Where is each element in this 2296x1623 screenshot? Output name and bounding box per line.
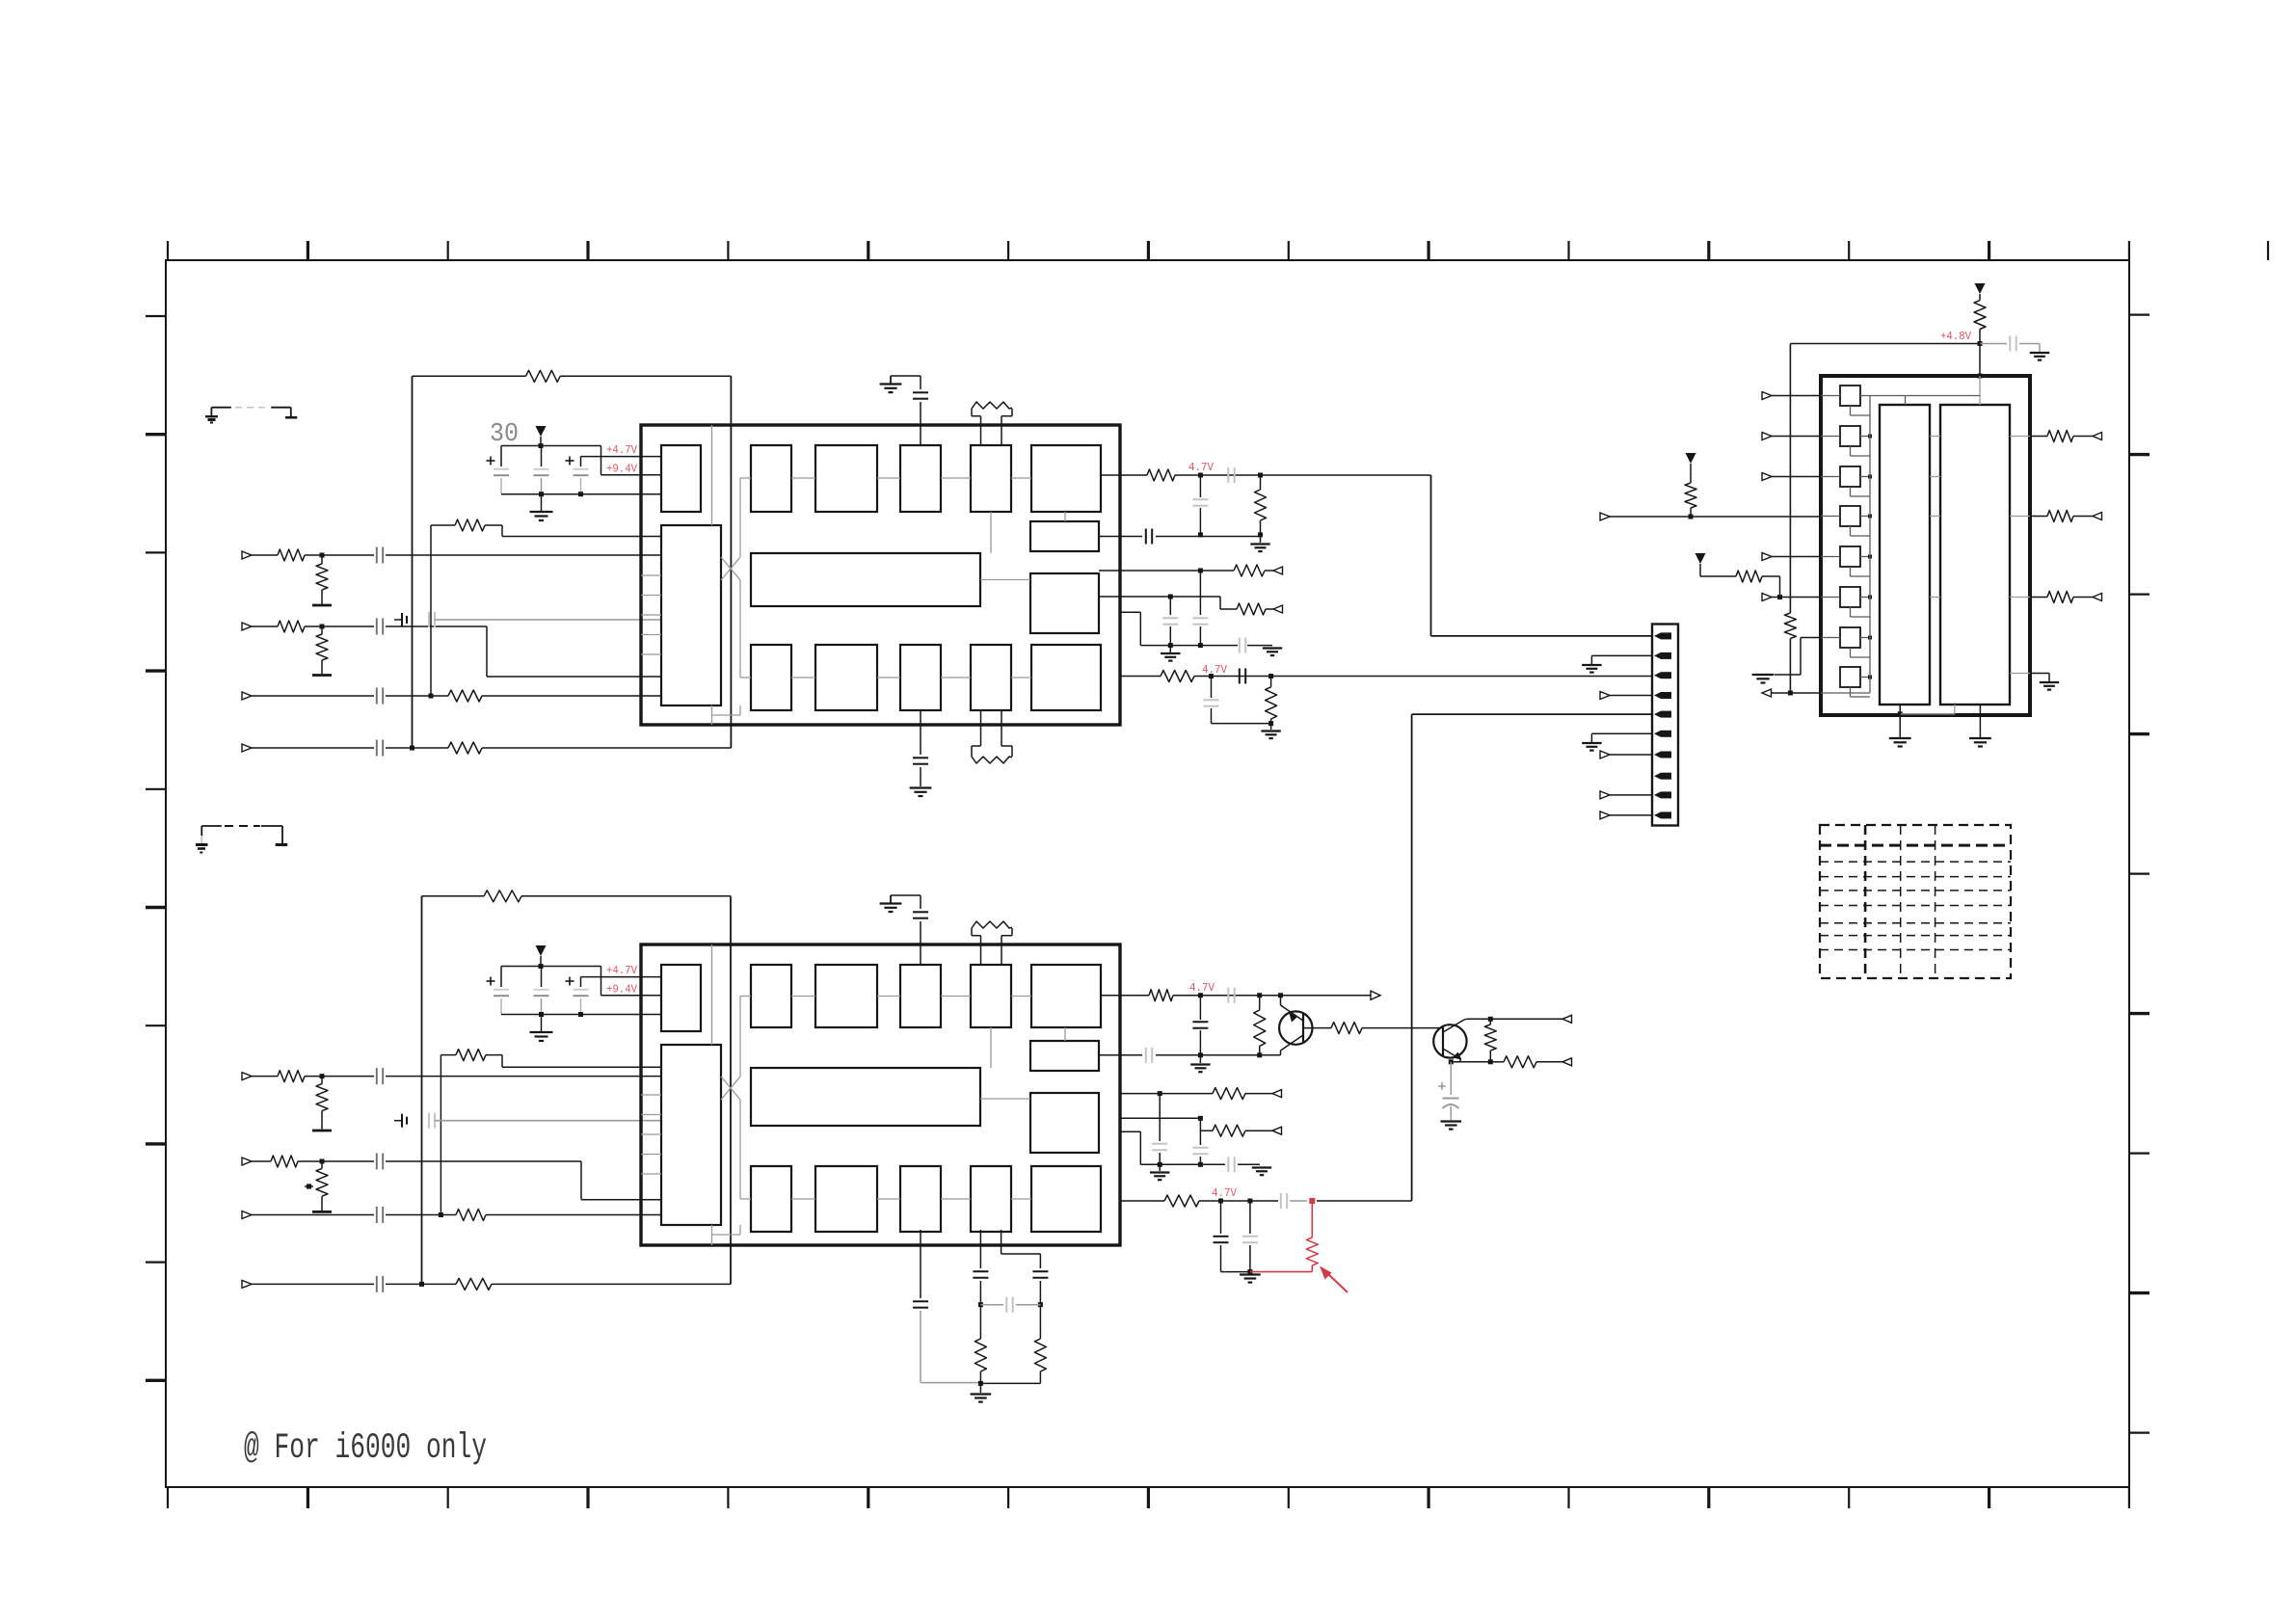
U2 bottom row block E (1031, 1166, 1101, 1232)
node OUT4 (1168, 595, 1173, 599)
node OUT6 n1 (1198, 993, 1203, 998)
capacitor C19 (IN5 coupling) (376, 1068, 378, 1084)
capacitor C11 (OUT1 series) (1227, 467, 1229, 483)
U2 input selector sub-block (661, 1045, 721, 1225)
ground bar IN6 shunt (312, 1211, 332, 1213)
resistor R32 (OUT10) (1164, 1195, 1199, 1207)
input arrow U3 row E (1762, 553, 1772, 561)
top tick marks (167, 241, 169, 260)
transistor Q1 (1279, 1011, 1312, 1044)
wire IN3 c (482, 695, 661, 697)
node AGC n2 (1198, 643, 1203, 648)
capacitor C37 (1199, 1118, 1201, 1145)
node row H (1788, 691, 1793, 696)
wire +9.4V net IC2 (601, 967, 602, 996)
wire power rail bottom (501, 493, 661, 495)
wire IN7 c (486, 1214, 661, 1216)
wire IN8 c (492, 1283, 731, 1285)
wire row-1094 to IC2 (486, 1054, 502, 1056)
wire power rail top IC2 (501, 966, 601, 968)
IC1 feedback loop right wire (730, 376, 732, 748)
resistor R18 (IN5 shunt) (321, 1077, 323, 1084)
capacitor C17 (OUT5 series) (1239, 669, 1241, 684)
node OUT10 red (1309, 1198, 1315, 1204)
wire U3 bottom right (2010, 673, 2030, 675)
capacitor C33 (OUT6 to line2) (1199, 996, 1201, 1020)
wire OUT6 a (1101, 995, 1149, 997)
output arrow OUT9 (1272, 1127, 1282, 1134)
svg-text:+9.4V: +9.4V (606, 463, 638, 476)
U2 internal center link (980, 1098, 1030, 1100)
wire shunt link (1221, 1271, 1250, 1273)
U3 input cell squares (1840, 386, 1860, 406)
node OUT10 n1 (1218, 1199, 1223, 1204)
input arrow IN6 (242, 1157, 252, 1165)
resistor R27 (Q1 base) (1331, 1023, 1362, 1034)
U2 internal row links (791, 996, 815, 998)
plus C35 (1438, 1085, 1446, 1087)
U2 top row block A (751, 965, 791, 1027)
U3 cell bus (1869, 396, 1871, 694)
U1 top row block B (815, 445, 877, 512)
node IN6 junction (320, 1159, 325, 1164)
U1 regulator sub-block (661, 445, 701, 512)
ground G10 (1441, 1120, 1462, 1122)
plus C24 (487, 980, 495, 982)
wire IN6 b (298, 1160, 374, 1162)
capacitor C4 (IN4 coupling) (376, 740, 378, 757)
resistor R1 (IC1 loop top) (526, 370, 561, 382)
capacitor C20 (IN6 coupling) (376, 1154, 378, 1170)
wire red link (1250, 1271, 1312, 1273)
output arrow U3 out 1 (2093, 433, 2102, 440)
wire IN6 a (252, 1160, 271, 1162)
wire IN2 b (305, 625, 374, 627)
resonator X1 top (980, 416, 982, 445)
input arrow U3 row B (1762, 433, 1772, 440)
capacitor C21 (IN7 coupling) (376, 1207, 378, 1223)
U2 bottom row block B (815, 1166, 877, 1232)
wire +9.4V net (601, 446, 602, 475)
input arrow IN8 (242, 1280, 252, 1288)
wire OUT3 (1099, 570, 1200, 572)
ground bar IN2 shunt (312, 674, 332, 677)
node OUT8 (1158, 1091, 1162, 1096)
wire +4.8V into IC3 (1979, 344, 1981, 377)
wire OUT9 (1120, 1117, 1200, 1119)
wire OUT10 b (1199, 1200, 1278, 1202)
node IN6 mark (307, 1184, 311, 1188)
node row F (1777, 595, 1782, 599)
wire CN1 pin7 (1600, 751, 1610, 758)
svg-text:4.7V: 4.7V (1188, 461, 1215, 474)
plus C6 (487, 460, 495, 462)
output arrow OUT3 (1273, 567, 1283, 574)
U2 regulator sub-block (661, 965, 701, 1031)
wire OUT8 (1120, 1093, 1213, 1095)
node Q2e n2 (1488, 1059, 1493, 1064)
input arrow IN5 (242, 1073, 252, 1080)
capacitor C24 electrolytic (500, 967, 502, 988)
wire OUT5 b (1194, 676, 1652, 678)
connector CN1 outline (1652, 625, 1678, 826)
node OUT6 n2 (1257, 993, 1262, 998)
output arrow U3 out 2 (2093, 513, 2102, 520)
input arrow U3 row C (1762, 473, 1772, 481)
U1 input selector sub-block (661, 525, 721, 705)
power triangle row F (1695, 553, 1706, 564)
resistor R15 (IC2 loop top) (484, 891, 521, 902)
resistor R21 (IN7 series) (456, 1210, 486, 1221)
node B2 (978, 1381, 983, 1386)
capacitor C26 electrolytic (580, 977, 582, 987)
wire +4.7V net IC2 (581, 976, 662, 978)
wire IN8 b (386, 1283, 456, 1285)
U2 bottom row block A (751, 1166, 791, 1232)
wire +4.8V left rail (1789, 344, 1791, 614)
wire IN1 a (252, 554, 278, 556)
ground G13 (1249, 1272, 1251, 1273)
output arrow Q2 emitter (1562, 1058, 1572, 1066)
U1 top row block D (971, 445, 1011, 512)
svg-text:+4.7V: +4.7V (606, 964, 638, 977)
node Q2e n1 (1449, 1059, 1454, 1064)
resistor R34 (+4.8V feed) (1979, 294, 1981, 301)
U2 top row block C (900, 965, 941, 1027)
node OUT10 n3 (1247, 1269, 1252, 1274)
resistor R38 (U3 out 1) (2047, 431, 2073, 442)
wire CN1 pin2 ground (1591, 654, 1652, 656)
capacitor C15 (1169, 597, 1171, 615)
svg-text:4.7V: 4.7V (1189, 981, 1215, 995)
U1 right small block (1030, 521, 1099, 551)
node IN1 junction (320, 553, 325, 558)
ground G14 (1582, 664, 1601, 666)
wire +4.8V rail top (1790, 343, 1980, 345)
resistor R8 (IN4 series) (448, 742, 482, 754)
resistor R9 (OUT1) (1147, 469, 1175, 481)
ground G17 (1752, 674, 1775, 676)
resistor R29 (Q2 emitter out) (1504, 1056, 1536, 1068)
U2 top row block B (815, 965, 877, 1027)
IC2 feedback loop right wire (730, 896, 732, 1285)
capacitor C9 top (891, 375, 921, 377)
node OUT5 n2 (1268, 674, 1273, 678)
U2 selector stub pins (641, 1094, 661, 1096)
U1 internal row links (791, 477, 815, 479)
U1 bottom row block E (1031, 645, 1101, 710)
input arrow U3 row D (1600, 513, 1610, 520)
output arrow Q2 collector (1562, 1015, 1572, 1023)
capacitor C38 (AGC2 series) (1227, 1157, 1229, 1172)
U1 top row block E (1031, 445, 1101, 512)
resonator X3 top IC2 (980, 936, 982, 965)
U2 right mid block (1030, 1093, 1099, 1153)
ground G15 (1582, 742, 1601, 744)
capacitor C1 (IN1 coupling) (376, 547, 378, 564)
ground G4 (1169, 646, 1171, 652)
U1 right mid block (1030, 573, 1099, 633)
ground bar IN5 shunt (312, 1130, 332, 1132)
capacitor C27 top IC2 (891, 894, 921, 896)
capacitor C13 (OUT2) (1145, 529, 1147, 545)
plus C8 (566, 460, 574, 462)
U2 right small block (1030, 1041, 1099, 1071)
resistor R33 adjust (red) (1311, 1201, 1313, 1237)
ground G9 (1199, 1055, 1201, 1063)
node row D (1689, 515, 1694, 519)
wire IN1 c (386, 554, 661, 556)
capacitor C5 stub with ground (394, 619, 402, 621)
plus C26 (566, 980, 574, 982)
resistor R28 (Q2 c-e) (1489, 1019, 1491, 1024)
resistor R20 (IN6 shunt) (321, 1161, 323, 1168)
node OUT1 n2 (1258, 473, 1263, 478)
capacitor C25 (541, 967, 543, 988)
ground G7 top IC2 (890, 895, 892, 904)
capacitor C40 (1220, 1201, 1222, 1234)
resistor R5 (IN2 series) (278, 621, 305, 632)
U3 cell stub wires (1860, 395, 1870, 397)
capacitor C35 electrolytic (Q2 emitter) (1450, 1062, 1452, 1095)
wire OUT1 a (1101, 474, 1147, 476)
IC1 feedback loop top wire (413, 375, 526, 377)
IC2 feedback loop top wire (422, 895, 485, 897)
IC1 feedback loop left wire (412, 376, 414, 748)
capacitor C2 (IN2 coupling) (376, 619, 378, 635)
wire IN8 a (252, 1283, 374, 1285)
wire IN4 a (252, 747, 374, 749)
wire Q2 emitter out (1536, 1061, 1562, 1063)
wire OUT1 b (1175, 474, 1431, 476)
input arrow IN4 (242, 744, 252, 752)
U1 top row block C (900, 445, 941, 512)
resistor R25 (OUT6) (1149, 990, 1173, 1001)
capacitor C31 (link) (980, 1304, 1003, 1306)
wire power rail top (501, 445, 601, 447)
jumper link J2 with ground (201, 825, 222, 827)
capacitor C14 (1199, 571, 1201, 615)
resistor R35 (rail series) (1784, 613, 1796, 639)
svg-text:4.7V: 4.7V (1212, 1186, 1238, 1200)
transistor Q2 (1433, 1024, 1466, 1057)
wire row-545 to IC1 (485, 524, 502, 526)
capacitor C36 (1159, 1094, 1161, 1141)
capacitor C12 (OUT1 to line2) (1199, 475, 1201, 497)
wire CN1 pin4 (1600, 692, 1610, 700)
capacitor C42 (+4.8V decouple) (1980, 343, 2007, 345)
ground G12 (1252, 1166, 1271, 1168)
wire branch 2 feed (1001, 1230, 1002, 1254)
wire AGC row (1120, 611, 1140, 613)
node IN8 junction (419, 1282, 424, 1287)
capacitor C6 electrolytic (500, 446, 502, 467)
ground bar IN1 shunt (312, 604, 332, 607)
wire Q1 base to Q2 (1362, 1027, 1443, 1029)
wire OUT2 (1099, 536, 1142, 538)
wire Q1 base (1303, 1027, 1331, 1029)
ground G6 (1270, 724, 1272, 730)
wire IN1 b (305, 554, 374, 556)
wire IN5 b (305, 1076, 374, 1078)
option table (dashed grid) (1820, 825, 2011, 978)
wire CN1 pin6 ground (1591, 732, 1652, 734)
U1 center DSP block (751, 553, 980, 606)
node OUT3 (1198, 569, 1203, 573)
wire row-545 corner (431, 524, 455, 526)
resonator X2 bottom (980, 710, 982, 746)
IC3 outline U3 (1821, 376, 2030, 715)
svg-text:+9.4V: +9.4V (606, 983, 638, 997)
node B1 (978, 1302, 983, 1307)
U3 internal top link (1979, 376, 1981, 405)
wire OUT10 a (1120, 1200, 1164, 1202)
wire power rail bottom IC2 (501, 1014, 661, 1016)
U3 inter-block stubs (1930, 436, 1940, 438)
wire OUT4 (1099, 596, 1220, 598)
wire IN5 a (252, 1076, 278, 1078)
output arrow OUT4 (1273, 605, 1283, 613)
resistor R17 (IN5 series) (278, 1071, 305, 1082)
U1 top row block A (751, 445, 791, 512)
wire row G to ground (1801, 637, 1821, 639)
node AGC2 n2 (1198, 1162, 1203, 1167)
wire IN4 b (386, 747, 448, 749)
U1 selector stub pins (641, 574, 661, 576)
resistor R39 (U3 out 2) (2047, 511, 2073, 522)
U2 bottom row block D (971, 1166, 1011, 1232)
wire bus B (CN1 pin5 to OUT10) (1412, 713, 1652, 715)
capacitor C39 (OUT10 series) (1280, 1193, 1282, 1209)
wire CN1 pin10 (1600, 811, 1610, 819)
wire OUT5 a (1120, 676, 1161, 678)
U2 top row block E (1031, 965, 1101, 1027)
node OUT10 n2 (1247, 1199, 1252, 1204)
resistor R3 (IN1 series) (278, 549, 305, 561)
wire branch bottom link (980, 1382, 1040, 1384)
wire IN3 b (386, 695, 448, 697)
resistor R2 (row-545) (455, 519, 485, 531)
wire Q2 collector (1467, 1018, 1562, 1020)
wire U3 out 3 (2010, 597, 2030, 599)
ground G19 (1889, 737, 1911, 739)
ground G5 (1263, 647, 1282, 649)
wire AGC row IC2 (1120, 1131, 1140, 1132)
node AGC n1 (1168, 643, 1173, 648)
U2 internal crossover X (721, 1077, 740, 1100)
input arrow IN1 (242, 551, 252, 559)
node OUT7 n2 (1257, 1052, 1262, 1057)
U3 cell bottom hooks (1850, 406, 1852, 415)
node OUT2 n1 (1198, 532, 1203, 537)
svg-text:+4.8V: +4.8V (1940, 330, 1972, 343)
wire IN7 a (252, 1214, 374, 1216)
power triangle IC2 (536, 945, 547, 956)
input arrow IN3 (242, 692, 252, 700)
node Q2c (1488, 1017, 1493, 1022)
wire OUT5 shunt link (1212, 723, 1271, 725)
U1 bottom row block A (751, 645, 791, 710)
node +4.8V (1978, 341, 1983, 346)
U2 internal verticals (711, 945, 713, 1045)
resistor R24 (branch 2) (1039, 1305, 1041, 1339)
input arrow U3 row F (1762, 594, 1772, 601)
U1 bottom row block D (971, 645, 1011, 710)
output arrow U3 out 3 (2093, 594, 2102, 601)
capacitor C28 (below U2) (920, 1230, 921, 1298)
node rail (539, 443, 544, 448)
connector CN1 pins (1661, 632, 1671, 639)
ground G20 (1969, 737, 1991, 739)
resistor R4 (IN1 shunt) (321, 555, 323, 564)
U1 internal verticals (711, 425, 713, 525)
wire bus A (OUT1 to CN1 pin1) (1430, 475, 1432, 636)
resistor R23 (branch 1) (979, 1305, 981, 1339)
ground G8 (979, 1383, 981, 1393)
node IN3 junction (429, 694, 434, 699)
wire IN2 c (386, 625, 487, 627)
capacitor C10 bottom (920, 710, 921, 755)
ground power group IC2 (541, 1015, 543, 1032)
wire IN2 a (252, 625, 278, 627)
capacitor C23 stub with ground (394, 1120, 402, 1122)
wire C28 to ground node (921, 1382, 980, 1384)
resistor R37 (row F pull) (1699, 564, 1701, 576)
resistor R13 (OUT5) (1161, 671, 1194, 682)
resistor R40 (U3 out 3) (2047, 592, 2073, 603)
node rail IC2 (539, 964, 544, 969)
capacitor C18 (OUT5 shunt) (1211, 677, 1213, 699)
wire +4.7V net (581, 456, 662, 458)
resistor R16 (row-1094) (456, 1050, 486, 1061)
node B3 (1038, 1302, 1043, 1307)
power triangle IC1 (536, 426, 547, 437)
capacitor C22 (IN8 coupling) (376, 1276, 378, 1292)
node OUT2 n2 (1258, 532, 1263, 537)
wire IN4 c (482, 747, 731, 749)
capacitor C3 (IN3 coupling) (376, 688, 378, 705)
ground G2 bottom (910, 786, 932, 788)
capacitor C34 (OUT7) (1145, 1048, 1147, 1063)
svg-text:+4.7V: +4.7V (606, 443, 638, 457)
ground power group (541, 494, 543, 511)
power triangle row D (1686, 453, 1696, 464)
resistor R36 (row D pull) (1690, 464, 1692, 483)
U3 shift register block (1880, 405, 1930, 705)
node OUT9 (1198, 1116, 1203, 1121)
U2 center DSP block (751, 1068, 980, 1126)
wire IN3 a (252, 695, 374, 697)
node IN7 junction (439, 1212, 443, 1217)
svg-text:@ For i6000 only: @ For i6000 only (244, 1428, 487, 1469)
U1 bottom row block C (900, 645, 941, 710)
node C25 bottom (539, 1012, 544, 1017)
node C8 bottom (578, 492, 583, 496)
U1 bottom row block B (815, 645, 877, 710)
U3 driver block (1940, 405, 2010, 705)
node IC3 vcc (1978, 374, 1983, 379)
capacitor C29 branch (979, 1230, 981, 1268)
border frame (166, 260, 2129, 1487)
page corner tick (2267, 241, 2269, 260)
ground G18 (2040, 681, 2059, 683)
resistor R26 (OUT6 shunt) (1259, 996, 1261, 1010)
capacitor C8 electrolytic (580, 457, 582, 466)
resistor R12 (OUT4) (1237, 603, 1266, 615)
node IN5 junction (320, 1074, 325, 1078)
ground G1 top (890, 376, 892, 385)
output arrow OUT8 (1272, 1090, 1282, 1098)
